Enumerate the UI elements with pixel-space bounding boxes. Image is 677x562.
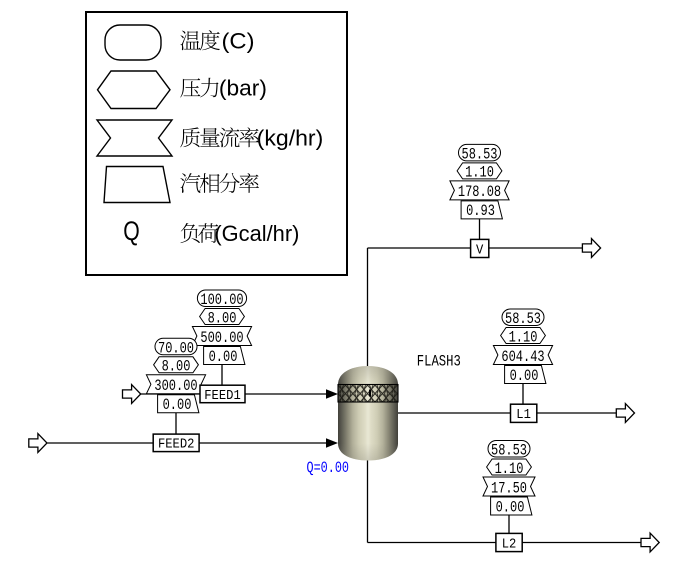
stream L2 temperature callout 58.53 (488, 441, 530, 460)
svg-text:(Gcal/hr): (Gcal/hr) (214, 221, 299, 246)
stream V temperature callout 58.53 (459, 144, 501, 163)
wire FEED2 callout connector (175, 413, 177, 434)
svg-text:(C): (C) (222, 29, 255, 54)
svg-text:FEED2: FEED2 (158, 437, 195, 453)
stream label box FEED2 (153, 434, 199, 453)
stream L1 mass flow callout 604.43 (493, 346, 552, 366)
svg-text:(bar): (bar) (219, 76, 267, 101)
svg-text:1.10: 1.10 (509, 328, 538, 346)
legend mass flow symbol (banner) (97, 120, 172, 156)
stream L1 pressure callout 1.10 (501, 328, 546, 347)
svg-text:0.00: 0.00 (163, 396, 192, 414)
wire FEED2 from box to drum (199, 442, 330, 444)
svg-text:8.00: 8.00 (162, 358, 191, 376)
svg-text:17.50: 17.50 (491, 479, 527, 497)
stream L2 mass flow callout 17.50 (483, 477, 535, 497)
legend vapor fraction symbol (trapezoid) (104, 167, 170, 203)
svg-text:0.93: 0.93 (466, 202, 495, 220)
FEED1 source arrow (123, 385, 141, 404)
svg-text:58.53: 58.53 (462, 146, 498, 164)
stream FEED1 vapor fraction callout 0.00 (204, 347, 245, 366)
wire V stream horizontal (368, 247, 583, 249)
svg-text:V: V (476, 242, 484, 258)
stream L1 temperature callout 58.53 (502, 309, 544, 328)
FEED2 source arrow (29, 434, 47, 453)
svg-text:8.00: 8.00 (208, 309, 237, 327)
legend temperature symbol (ellipse) (105, 25, 161, 60)
svg-text:500.00: 500.00 (200, 329, 243, 347)
legend pressure symbol (hexagon) (98, 71, 171, 109)
stream FEED1 pressure callout 8.00 (200, 309, 245, 328)
svg-text:604.43: 604.43 (501, 348, 544, 366)
svg-text:L2: L2 (502, 536, 517, 552)
flash drum FLASH3 vessel body (338, 366, 398, 461)
svg-text:58.53: 58.53 (505, 310, 541, 328)
L2 product arrow (641, 533, 659, 552)
svg-text:0.00: 0.00 (510, 367, 539, 385)
stream label box FEED1 (200, 385, 245, 404)
wire FEED1 from box to drum (245, 393, 330, 395)
legend label 汽相分率 (180, 173, 259, 193)
svg-text:58.53: 58.53 (491, 442, 527, 460)
wire FEED1 from inlet arrow to box (140, 393, 200, 395)
svg-text:Q=0.00: Q=0.00 (307, 459, 350, 477)
svg-text:100.00: 100.00 (200, 291, 243, 309)
wire FEED2 from inlet arrow to box (47, 442, 153, 444)
svg-text:Q: Q (123, 217, 139, 247)
stream FEED1 mass flow callout 500.00 (192, 327, 251, 347)
L1 product arrow (616, 404, 634, 423)
stream label box V (471, 239, 489, 258)
flash drum demister mesh band (338, 385, 398, 403)
stream FEED2 vapor fraction callout 0.00 (158, 395, 199, 414)
FEED2 inlet arrowhead at drum (326, 438, 338, 447)
wire L2 stream horizontal (368, 542, 642, 544)
svg-text:FLASH3: FLASH3 (417, 353, 461, 371)
svg-text:178.08: 178.08 (458, 183, 501, 201)
legend label 压力(bar) (180, 78, 218, 98)
stream L2 pressure callout 1.10 (487, 459, 532, 478)
legend label 质量流率(kg/hr) (180, 127, 259, 147)
legend label 负荷(Gcal/hr) (181, 223, 219, 243)
stream FEED2 mass flow callout 300.00 (146, 375, 205, 395)
svg-text:1.10: 1.10 (465, 164, 494, 182)
legend box (86, 12, 347, 275)
wire V callout connector (479, 219, 481, 240)
wire V stream vertical from drum top (367, 248, 369, 367)
stream label box L1 (511, 404, 537, 423)
stream V vapor fraction callout 0.93 (461, 201, 502, 220)
V product arrow (582, 239, 600, 258)
wire FEED1 callout connector (221, 365, 223, 386)
svg-text:300.00: 300.00 (154, 377, 197, 395)
svg-text:FEED1: FEED1 (204, 388, 241, 404)
wire L1 stream horizontal (398, 412, 616, 414)
wire L2 callout connector (508, 515, 510, 534)
legend label 温度(C) (180, 30, 220, 50)
svg-text:70.00: 70.00 (158, 340, 194, 358)
svg-text:0.00: 0.00 (209, 348, 238, 366)
stream L1 vapor fraction callout 0.00 (505, 366, 546, 385)
svg-text:1.10: 1.10 (495, 460, 524, 478)
stream L2 vapor fraction callout 0.00 (491, 497, 532, 516)
stream label box L2 (496, 533, 522, 552)
stream V pressure callout 1.10 (457, 163, 502, 182)
svg-text:L1: L1 (516, 407, 531, 423)
wire L1 callout connector (522, 384, 524, 405)
stream FEED1 temperature callout 100.00 (197, 290, 246, 309)
FEED1 inlet arrowhead at drum (326, 389, 338, 398)
svg-text:(kg/hr): (kg/hr) (257, 126, 324, 151)
stream V mass flow callout 178.08 (450, 181, 509, 201)
wire L2 stream vertical from drum bottom (367, 459, 369, 543)
stream FEED2 temperature callout 70.00 (155, 338, 197, 357)
stream FEED2 pressure callout 8.00 (154, 357, 199, 376)
svg-text:0.00: 0.00 (496, 498, 525, 516)
